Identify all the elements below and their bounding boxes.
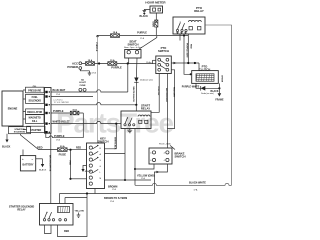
PTO relay K2 [173,17,205,34]
svg-text:GRAY: GRAY [152,20,155,27]
svg-text:BLACK: BLACK [2,145,11,148]
svg-text:STARTER: STARTER [30,129,41,132]
fuse F2 terminals [79,88,82,91]
svg-text:POWER: POWER [67,65,78,69]
node ACC junction [98,62,100,64]
svg-text:BROWN-WHITE: BROWN-WHITE [49,155,51,172]
connector (purple row) [70,111,79,115]
svg-text:−: − [32,157,34,161]
svg-text:+: + [22,157,24,161]
svg-text:KILL: KILL [32,120,38,123]
svg-text:15 A: 15 A [113,31,118,34]
wire yellow gnd [105,179,152,181]
svg-text:RELAY: RELAY [194,9,204,13]
node start relay tap [135,104,137,106]
svg-text:PURPLE: PURPLE [111,65,122,69]
svg-text:RED-WHT: RED-WHT [172,87,174,98]
wire brake right pin [154,164,167,194]
wire key bottom pin [94,189,96,194]
svg-text:RED: RED [64,230,69,233]
svg-text:BLACK-WHITE: BLACK-WHITE [189,181,206,184]
svg-text:HOUR METER: HOUR METER [145,1,166,5]
ground (start relay) [129,129,131,131]
wire purple row [51,112,83,114]
wire PTO relay pin stub [179,34,181,41]
wire ACC run [82,62,153,64]
node lower red junction [69,178,71,180]
svg-text:GREEN: GREEN [221,75,223,83]
svg-text:Diode (on wire): Diode (on wire) [140,79,153,82]
wire PTO sw plug drop [167,70,174,129]
wire key switch right stub [105,153,126,155]
wire relay/brake drop [134,129,136,186]
svg-text:PRESSURE: PRESSURE [28,90,42,93]
node relay feed [86,192,88,194]
svg-text:BROWN-WHT: BROWN-WHT [165,88,167,103]
brake switch S4 [149,148,172,164]
svg-text:20 A: 20 A [60,145,65,148]
svg-text:PURPLE: PURPLE [53,109,64,113]
wire strip bottom loop [46,133,84,138]
hour meter HM1 [150,6,163,13]
svg-text:BLACK: BLACK [140,15,149,18]
node seat-left junction [127,62,129,64]
wire PTO relay to PTO clutch left [184,34,190,74]
node clutch ground [218,87,220,89]
svg-text:15 A: 15 A [88,59,93,62]
battery B1 [20,156,35,171]
svg-text:WHITE-BLACK: WHITE-BLACK [132,87,135,103]
svg-text:YELLOW (GND): YELLOW (GND) [137,174,155,177]
connector (ACC 2) [108,62,117,66]
wire PTO switch to clutch [171,62,199,64]
wire brake left pin [135,164,154,169]
svg-text:RELAY: RELAY [141,107,150,111]
wire start relay bottom drop [124,129,126,181]
PTO relay coil [189,20,202,22]
ground (key switch) [83,166,87,170]
svg-text:RED: RED [37,146,43,150]
svg-text:PLUG - 1845: PLUG - 1845 [159,144,172,146]
seat switch S3 [125,50,141,59]
wire ssr bottom loops [45,225,52,234]
svg-text:SWITCH: SWITCH [127,43,138,47]
ground (battery) [42,159,44,164]
wire to key switch right [105,124,117,149]
wire starter solenoid to fuse [21,134,58,150]
wire seat switch right pin w/ diode [135,58,138,78]
wire PTO sw to brake switch [166,74,168,149]
wire bottom right rail [135,183,232,185]
svg-text:SWITCH: SWITCH [175,155,186,159]
wire clutch ground path [196,83,219,88]
wire connector to purple node [155,27,157,35]
svg-text:BROWN: BROWN [108,186,118,189]
svg-text:SWITCH: SWITCH [158,49,169,53]
svg-text:WHITE-BLK: WHITE-BLK [114,137,116,150]
svg-text:PURPLE-WHT: PURPLE-WHT [186,43,188,58]
ground (ACC) [80,69,89,70]
starter solenoid [9,127,31,134]
svg-text:Diode (on wire): Diode (on wire) [201,92,214,95]
wire hour meter down [155,13,157,20]
ACC power terminals [79,62,82,65]
wire battery feed [22,150,24,156]
wire brown-white drop [50,133,52,203]
svg-text:RED: RED [189,44,191,49]
ground (hour meter) [143,11,147,13]
svg-text:PURPLE: PURPLE [54,134,65,138]
key switch S1 [87,143,105,189]
svg-text:ENGINE: ENGINE [8,108,18,111]
svg-text:TO VOLTMETER: TO VOLTMETER [54,102,70,104]
wire PTO relay to right rail [205,25,232,185]
diode (seat to start relay) [134,78,138,83]
PTO clutch L1 [192,71,219,84]
svg-text:BLUE-WHT: BLUE-WHT [53,89,66,92]
wire start relay row [51,103,136,105]
svg-text:RED: RED [76,147,81,150]
svg-text:RED: RED [68,161,70,166]
engine block [2,91,23,126]
wire seat switch left pin [128,58,130,63]
diode (clutch) [201,86,206,91]
node key feed tap [115,123,117,125]
svg-text:PURPLE-WHITE: PURPLE-WHITE [182,86,200,88]
wire engine stubs [23,90,27,129]
fuel solenoid [26,94,45,103]
starter solenoid relay K3 [40,204,74,226]
svg-text:BROWN TO S-TERM: BROWN TO S-TERM [104,197,127,200]
wire PTO switch left stubs [153,59,156,61]
regulator [26,109,45,115]
svg-text:PURPLE: PURPLE [95,43,97,52]
wire fuse to key switch [67,149,86,151]
svg-text:BATTERY: BATTERY [22,163,33,166]
svg-text:WHITE-VIOLET: WHITE-VIOLET [53,121,71,124]
svg-text:15 A: 15 A [72,109,77,112]
starter [27,126,46,132]
wire PTO relay to clutch feed node [187,34,189,63]
ground (frame) [218,88,220,93]
fuse F1 [58,148,68,152]
svg-text:SOLENOID: SOLENOID [28,99,41,102]
wire hour meter to ground [144,10,150,11]
svg-text:REGULATOR: REGULATOR [27,111,42,114]
svg-text:RELAY: RELAY [17,208,26,211]
connector (purple wire) [111,34,120,38]
ground (starter solenoid) [6,134,8,140]
svg-text:FUSE: FUSE [80,85,86,87]
wire diagonal to seat switch [139,36,157,50]
wire purple drop [82,113,84,138]
wire purple feed (hour meter / seat node) [98,35,189,37]
wire relay loop [58,194,88,237]
svg-text:Norm. Open - In Seat: Norm. Open - In Seat [124,46,142,49]
svg-text:5A: 5A [81,79,84,82]
wire fuse node down [70,150,72,179]
wire white-violet row [51,121,121,123]
wire relay stub [59,194,61,204]
node fuse junction [69,149,71,151]
node purple junction [96,35,98,37]
svg-text:BLACK: BLACK [39,168,47,171]
svg-text:SOLENOID: SOLENOID [14,131,26,133]
wire to key switch lower left [71,178,87,180]
connector (hour meter lead) [155,20,158,27]
svg-text:YELLOW: YELLOW [157,86,159,96]
wire PTO sw to start relay [151,74,159,113]
connector strip J1 [45,88,52,134]
svg-text:FRAME: FRAME [215,99,224,102]
svg-text:15 Am: 15 Am [146,61,152,64]
wire battery to ground [36,158,43,160]
wire key feed (gray vertical) [97,36,99,143]
svg-text:PURPLE: PURPLE [137,31,147,34]
PTO switch S2 [156,56,172,74]
connector (ACC 1) [86,62,95,66]
svg-text:BLACK: BLACK [85,170,92,173]
svg-text:15 A: 15 A [110,59,115,62]
wire oil pressure row (blue-wht) [51,90,128,92]
svg-text:FUSE: FUSE [59,152,67,156]
PTO relay contacts [176,29,178,31]
wire voltmeter stub [51,96,93,98]
start relay K1 [121,111,151,129]
magneto kill [26,115,45,124]
svg-text:STARTER: STARTER [14,128,25,131]
wire bottom brown rail [60,193,155,195]
ground (ssr) [78,213,80,216]
svg-text:YELLOW: YELLOW [75,210,85,212]
